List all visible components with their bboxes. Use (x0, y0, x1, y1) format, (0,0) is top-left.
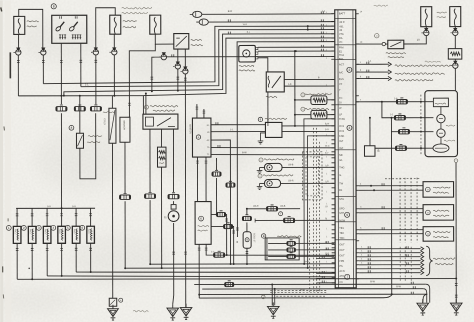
circled mark top of G2 vertical (454, 159, 458, 163)
connector oval O1 (193, 11, 202, 17)
svg-text:K: K (200, 217, 202, 221)
wire L1 down (124, 142, 126, 193)
RS1 label (305, 94, 332, 95)
svg-text:THG: THG (339, 166, 344, 169)
svg-text:B-W: B-W (396, 285, 401, 288)
sensor S2 water temp (265, 179, 281, 187)
inline connector above distributor (168, 194, 179, 198)
fuel sender gauge (433, 144, 449, 152)
svg-text:LP: LP (339, 113, 342, 116)
wire VC to ECU (258, 46, 334, 48)
svg-text:IGT: IGT (339, 140, 344, 143)
svg-text:OUT: OUT (339, 254, 345, 257)
svg-text:B: B (377, 149, 379, 153)
ground GC center (271, 284, 273, 305)
ignition switch pin cluster 2 (72, 35, 74, 39)
svg-text:KNK: KNK (339, 135, 344, 138)
ECU left pin stubs (331, 13, 335, 15)
svg-text:B: B (263, 234, 265, 238)
injector 3 return wire (46, 243, 48, 276)
svg-text:IGF: IGF (339, 147, 344, 150)
shielded wire bend 1 (304, 119, 334, 264)
svg-text:LB-R: LB-R (288, 179, 294, 182)
svg-text:OX1: OX1 (339, 125, 345, 128)
ECU section dividers (335, 17, 356, 19)
svg-text:PIM: PIM (339, 46, 343, 49)
svg-text:OX2: OX2 (339, 130, 345, 133)
open junction circle at relay R2 (382, 42, 385, 45)
wire F5 to EFI main relay (404, 36, 427, 44)
connector bullet below F5 (425, 27, 427, 30)
cold start injector body (243, 232, 251, 249)
wire relay pin1 drop joins L3 (177, 69, 179, 91)
ECU right pin stubs (356, 13, 359, 15)
wire bus to circuit opening relay (142, 96, 144, 114)
wire relay pin2 drop to ground GB (184, 74, 186, 307)
tall box label (103, 112, 115, 113)
svg-text:3: 3 (349, 126, 351, 130)
wire ECU pin y42 L-bend down x232 (237, 42, 334, 237)
svg-text:W-G: W-G (325, 146, 330, 148)
inline connector on resistor drop (74, 107, 85, 111)
wire PIM to ECU (258, 50, 334, 52)
wires to OB2 (359, 208, 423, 210)
bus y268 (125, 267, 335, 269)
igniter bottom pins to main box (196, 157, 198, 201)
connector bullet relay pin 1 (177, 49, 179, 63)
wire y220 with inline connector to ECU (255, 219, 334, 221)
wire F1 drop to bus (17, 55, 19, 96)
connector bullet x43 (41, 50, 46, 55)
ECU bottom-left stub wires (316, 257, 335, 259)
arrow output FPU (357, 78, 389, 80)
pencil note top (374, 5, 388, 6)
bundle label (433, 258, 455, 260)
igniter box (192, 118, 211, 157)
nested wire L1 ECU y26 around to x44 drop (43, 26, 334, 84)
brace for bundle (426, 246, 433, 276)
wire fuse F3 top feed (96, 8, 116, 49)
ground GA (172, 304, 174, 308)
ignition switch contact 2 (69, 26, 75, 32)
dashed shield verticals right bottom (399, 178, 401, 243)
svg-text:TE1: TE1 (339, 227, 344, 230)
S2 label (263, 175, 293, 176)
wire ECU to relay R2 (356, 43, 388, 45)
wire O1 to ECU BATT (202, 13, 334, 16)
relay T label (266, 96, 277, 97)
injector 4 (61, 208, 63, 226)
wire OL to ECU 2 (282, 130, 334, 132)
ECU output arrows bundle (359, 248, 420, 250)
wire distributor to ground GA (173, 223, 174, 304)
relay T wire to ECU 1 (284, 78, 334, 80)
fuel pump labels (446, 125, 455, 126)
svg-text:VF: VF (339, 83, 343, 86)
svg-text:L-R: L-R (325, 181, 329, 183)
svg-text:STP: STP (339, 212, 344, 215)
wire OL to ECU 1 (282, 125, 334, 127)
svg-text:OUT: OUT (339, 249, 345, 252)
shield dashed rectangle outer (302, 152, 322, 200)
distributor pickup connector square (171, 205, 176, 210)
svg-text:IGNITER: IGNITER (188, 124, 191, 134)
fuel pump motor 1 (437, 114, 445, 122)
svg-text:THA: THA (339, 54, 344, 57)
cold start injector bottom pin (246, 248, 248, 264)
label EFI between fuses (437, 12, 447, 13)
nested wire L3 ECU y34 around to x64 drop (64, 34, 334, 96)
connector oval O2 (199, 19, 208, 25)
inline connector on bus284 (225, 282, 234, 286)
svg-text:G-: G- (339, 174, 342, 177)
svg-text:NE: NE (339, 154, 343, 157)
fuse F3 7.5A (110, 15, 121, 34)
ECU circled numbers (347, 67, 352, 72)
vertical feed for solenoid resistors (294, 51, 296, 126)
wires to OB1 (359, 185, 423, 187)
svg-text:COLD: COLD (103, 118, 106, 125)
wire B1 to fuel pump assembly (454, 68, 456, 90)
svg-text:LB-B: LB-B (288, 163, 294, 166)
circuit opening relay box (143, 114, 178, 129)
pencil note DECK bottom left (133, 310, 148, 312)
label above connector block (277, 236, 301, 238)
injector return rail 3-4 (47, 275, 335, 277)
bus y95 horizontal (18, 95, 143, 97)
main box right pin 1 with connector (211, 214, 216, 216)
svg-text:LB-R: LB-R (253, 205, 259, 208)
output box OB3 (423, 227, 454, 242)
OL ground (260, 133, 265, 138)
pencil note above F3 (122, 7, 152, 9)
svg-text:SPD: SPD (339, 207, 344, 210)
output box OB2 (423, 205, 454, 221)
shielded wire bend 2 (307, 136, 334, 268)
svg-text:VTA: VTA (339, 33, 344, 36)
connector bullet below F3 (113, 34, 115, 49)
inline connector below L1 (120, 195, 131, 199)
pencil circled mark (375, 34, 379, 38)
svg-text:W-R: W-R (243, 24, 248, 26)
circuit opening relay pin drops (149, 129, 151, 192)
resistor R3 below relay (160, 129, 162, 147)
bends of buses into ground G1 bundle (426, 284, 430, 303)
ground G0 left with filter (109, 298, 117, 306)
relay pin to distributor drop (172, 129, 174, 192)
fuel pump resistor block (433, 98, 448, 107)
svg-text:CK: CK (339, 281, 343, 284)
igniter wire IGF to OL (211, 131, 265, 133)
bus y294 below ECU (199, 293, 427, 295)
wire pump feed 1 (356, 101, 433, 103)
inline connector on CO pin drop (145, 194, 156, 198)
main box bottom pin 1 to lower buses (198, 244, 200, 298)
shield dashed rectangle inner (306, 157, 319, 196)
svg-text:NSW: NSW (339, 219, 345, 222)
svg-text:COLD ST: COLD ST (253, 233, 255, 243)
distributor pickup coil (168, 211, 179, 222)
wire F6 down to resistor box (454, 36, 456, 49)
svg-text:B-R: B-R (47, 206, 51, 208)
wire from F4 branch to box L1 (129, 44, 155, 117)
vacuum sensor terminals (255, 47, 258, 49)
igniter wire IGT to OL (211, 124, 265, 126)
svg-text:B-Y: B-Y (325, 153, 329, 155)
igniter wire y140 bend down (211, 140, 231, 264)
connector bullet below B1 (454, 59, 456, 63)
connector block MC (265, 238, 299, 260)
wire IG1 drop lower to injector rail (60, 113, 62, 208)
igniter wire y147 to ECU (211, 146, 334, 149)
wire x114 drop to bus (113, 55, 115, 96)
svg-text:B-O: B-O (304, 260, 308, 263)
tall main ignition coil box (195, 202, 211, 245)
svg-text:ACN: ACN (339, 270, 344, 273)
solenoid resistor tall box (111, 96, 113, 108)
injector 1 return wire (16, 243, 18, 279)
resistor R2 label vertical (88, 136, 102, 137)
arrow output MAGNETIC CLUTCH (357, 63, 389, 65)
output box OB1 (423, 182, 454, 198)
circled 10 mark (279, 212, 283, 216)
RS2 wire to ECU (327, 114, 334, 116)
injector return rail 1-2 (17, 278, 456, 281)
injector 3 (46, 208, 48, 226)
svg-text:9: 9 (346, 213, 348, 217)
svg-text:DI: DI (339, 101, 342, 104)
wire branch to box B2 (369, 118, 371, 146)
fuel pump motor 2 (437, 129, 445, 137)
main box bottom pin 2 wire y255 (206, 244, 334, 255)
solenoid resistor RS2 (295, 114, 311, 116)
injector 4 return wire (61, 243, 63, 276)
wire x43 drop (42, 55, 44, 83)
resistor R2 vertical (79, 96, 81, 133)
wire LB with inline connector (247, 208, 300, 210)
wire tall box down to filter (111, 143, 113, 298)
wire E2 drop to relay T (258, 58, 268, 72)
wire pump feed 4 (375, 147, 433, 149)
svg-text:+B R: +B R (339, 21, 345, 24)
nested wire L2 ECU y30 around to IG2 drop (81, 30, 334, 87)
box B2 (364, 146, 375, 157)
dashed shield vertical right zone (420, 95, 422, 155)
bus y298 below ECU merging (199, 294, 392, 298)
resistor bottom U-loop to connector chain (80, 113, 96, 179)
injector supply rail (16, 207, 95, 209)
EFI relay R1 (174, 34, 189, 50)
wire IG2 drop (80, 43, 82, 86)
svg-text:B-W: B-W (242, 151, 247, 154)
svg-text:STA: STA (339, 198, 344, 201)
RS2 label (305, 108, 329, 110)
svg-text:FPE: FPE (339, 260, 344, 263)
svg-text:+B: +B (339, 29, 342, 32)
circled B marker above ignition switch (51, 4, 56, 9)
wire R3 down to bus (161, 167, 163, 268)
OL box label (265, 118, 287, 119)
wire pump feed 2 (382, 102, 434, 118)
ticks on GB drop (184, 251, 187, 253)
svg-text:ATH: ATH (339, 275, 344, 278)
wire pump feed 3 (391, 118, 433, 132)
dashed horizontal above OB1 (385, 178, 420, 180)
vertical feeder with connector to main box pin1 (215, 158, 217, 170)
wire fuse F1 top (19, 9, 43, 49)
wire F4 to EFI relay (155, 34, 174, 44)
wire x96 drop (95, 55, 97, 104)
right vertical to ground G2 (455, 163, 457, 303)
wire x152 drop from connector to y92 line (152, 57, 155, 91)
injector 2 (31, 208, 33, 226)
ECU entry tick marks on top buses (320, 12, 322, 14)
svg-text:L-B: L-B (325, 165, 329, 167)
svg-text:B-R: B-R (325, 129, 329, 131)
bus y264 (150, 263, 335, 265)
wire S1 to ECU (282, 166, 334, 168)
arrow output A-C AMPLIFIER (357, 71, 389, 73)
svg-text:2: 2 (348, 68, 350, 72)
injector 5 return wire (75, 243, 77, 272)
injector 6 return wire (90, 243, 92, 272)
EFI main relay R2 (388, 40, 404, 49)
svg-text:FC: FC (339, 97, 343, 100)
svg-text:TE2: TE2 (339, 232, 344, 235)
vacuum sensor (239, 45, 256, 62)
connector bullet relay pin 2 (184, 49, 186, 68)
svg-text:LB-B: LB-B (280, 205, 286, 208)
relay T box (266, 72, 284, 92)
circled mark near GC (261, 295, 265, 299)
scan specks (3, 126, 6, 130)
injector 2 return wire (31, 243, 33, 279)
tick pairs on nested wires (227, 19, 229, 22)
svg-text:PS: PS (339, 265, 343, 268)
svg-text:BATT: BATT (339, 12, 346, 15)
bus y284 (194, 283, 425, 285)
inline connector on cold start drop (242, 216, 251, 220)
svg-text:B-R: B-R (228, 9, 233, 13)
RS1 wire to ECU (327, 99, 334, 101)
dashed bus segments bottom center (270, 289, 326, 291)
S2 ground (260, 182, 265, 184)
tick labels near outputs (381, 183, 383, 186)
svg-text:B: B (53, 4, 55, 8)
fuse F5 15A EFI (421, 7, 432, 27)
svg-text:TW: TW (339, 182, 344, 185)
circled 8 near resistor (69, 125, 74, 130)
ground G1 right (422, 299, 424, 303)
igniter top pins (196, 104, 198, 118)
dashed shield verticals left of ECU (312, 128, 314, 292)
sensor S1 oxygen (265, 163, 283, 171)
ignition switch pin cluster 1 (59, 35, 61, 39)
wires to OB3 (359, 229, 423, 231)
svg-text:THW: THW (339, 118, 345, 121)
circuit opening relay label (150, 105, 178, 107)
svg-text:ACT: ACT (339, 63, 344, 66)
injector return rail 5-6 (76, 272, 335, 273)
fuel pump assembly box (425, 91, 458, 157)
branch jog on bus y26-y30 (307, 26, 309, 29)
injector 6 (90, 208, 92, 226)
wire S2 to ECU (281, 182, 334, 184)
inline connector on x230 vertical (226, 183, 235, 187)
connector bullet below F6 (454, 27, 456, 30)
ignition switch contact 1 (55, 26, 61, 32)
connector bullet below F1 (18, 34, 20, 49)
S1 ground (260, 166, 265, 168)
ground G2 far right (455, 299, 457, 303)
scan left margin band (0, 0, 3, 322)
box L1 with vertical label (120, 117, 130, 142)
relay T bottom drop to OL box (267, 92, 269, 122)
fuel pump internal wires (440, 107, 442, 115)
svg-text:IG: IG (207, 132, 210, 134)
wire IG1 drop (60, 43, 62, 104)
fuse F6 30A AM2 (450, 7, 461, 27)
svg-text:E21: E21 (339, 58, 344, 61)
scan streak mark (9, 52, 11, 78)
main box right pin 2 with connector (211, 226, 223, 228)
pencil note near pump (425, 61, 441, 62)
fuse F4 15A (150, 15, 161, 34)
svg-text:IDL: IDL (339, 37, 344, 40)
connector bullet x164 with wire to ECU (161, 54, 166, 59)
ground GB (185, 304, 187, 308)
ignition switch assembly (52, 15, 87, 43)
svg-text:B-R: B-R (72, 206, 76, 208)
igniter wire y154 to ECU (211, 153, 334, 156)
box OL throttle sensor (265, 122, 282, 137)
engine control module box (335, 10, 356, 288)
cold start injector drop (246, 208, 248, 210)
nested wire L4 ECU y38 around to main bus (143, 38, 334, 96)
S1 label (264, 159, 294, 161)
resistor box B1 (448, 49, 462, 60)
solenoid resistor RS1 (295, 99, 311, 101)
inline connector on IG1 drop (56, 107, 67, 111)
svg-text:VC: VC (339, 41, 343, 44)
vacuum sensor label (239, 65, 254, 66)
injector 1 (16, 208, 18, 226)
relay T wire to ECU 2 (284, 85, 334, 87)
wire long vertical x391 down to bus (390, 132, 392, 294)
svg-text:A/C: A/C (339, 71, 343, 74)
svg-text:B-W: B-W (370, 280, 375, 283)
svg-text:ELS: ELS (339, 78, 344, 81)
ticks on MC wires near ECU (325, 241, 327, 244)
connector bullet x96 (93, 50, 98, 55)
svg-text:TRC: TRC (339, 237, 344, 240)
inline connector on x96 drop (90, 107, 101, 111)
wire O2 to ECU +B (208, 21, 333, 23)
injector 5 (75, 208, 77, 226)
MC wires to ECU (296, 242, 334, 244)
fuse F1 7.5A GAUGE (14, 16, 25, 34)
bus y289 (202, 288, 423, 290)
svg-text:OUT: OUT (339, 243, 345, 246)
wire y57 to ECU (166, 56, 333, 58)
svg-text:SENSOR: SENSOR (122, 120, 124, 130)
